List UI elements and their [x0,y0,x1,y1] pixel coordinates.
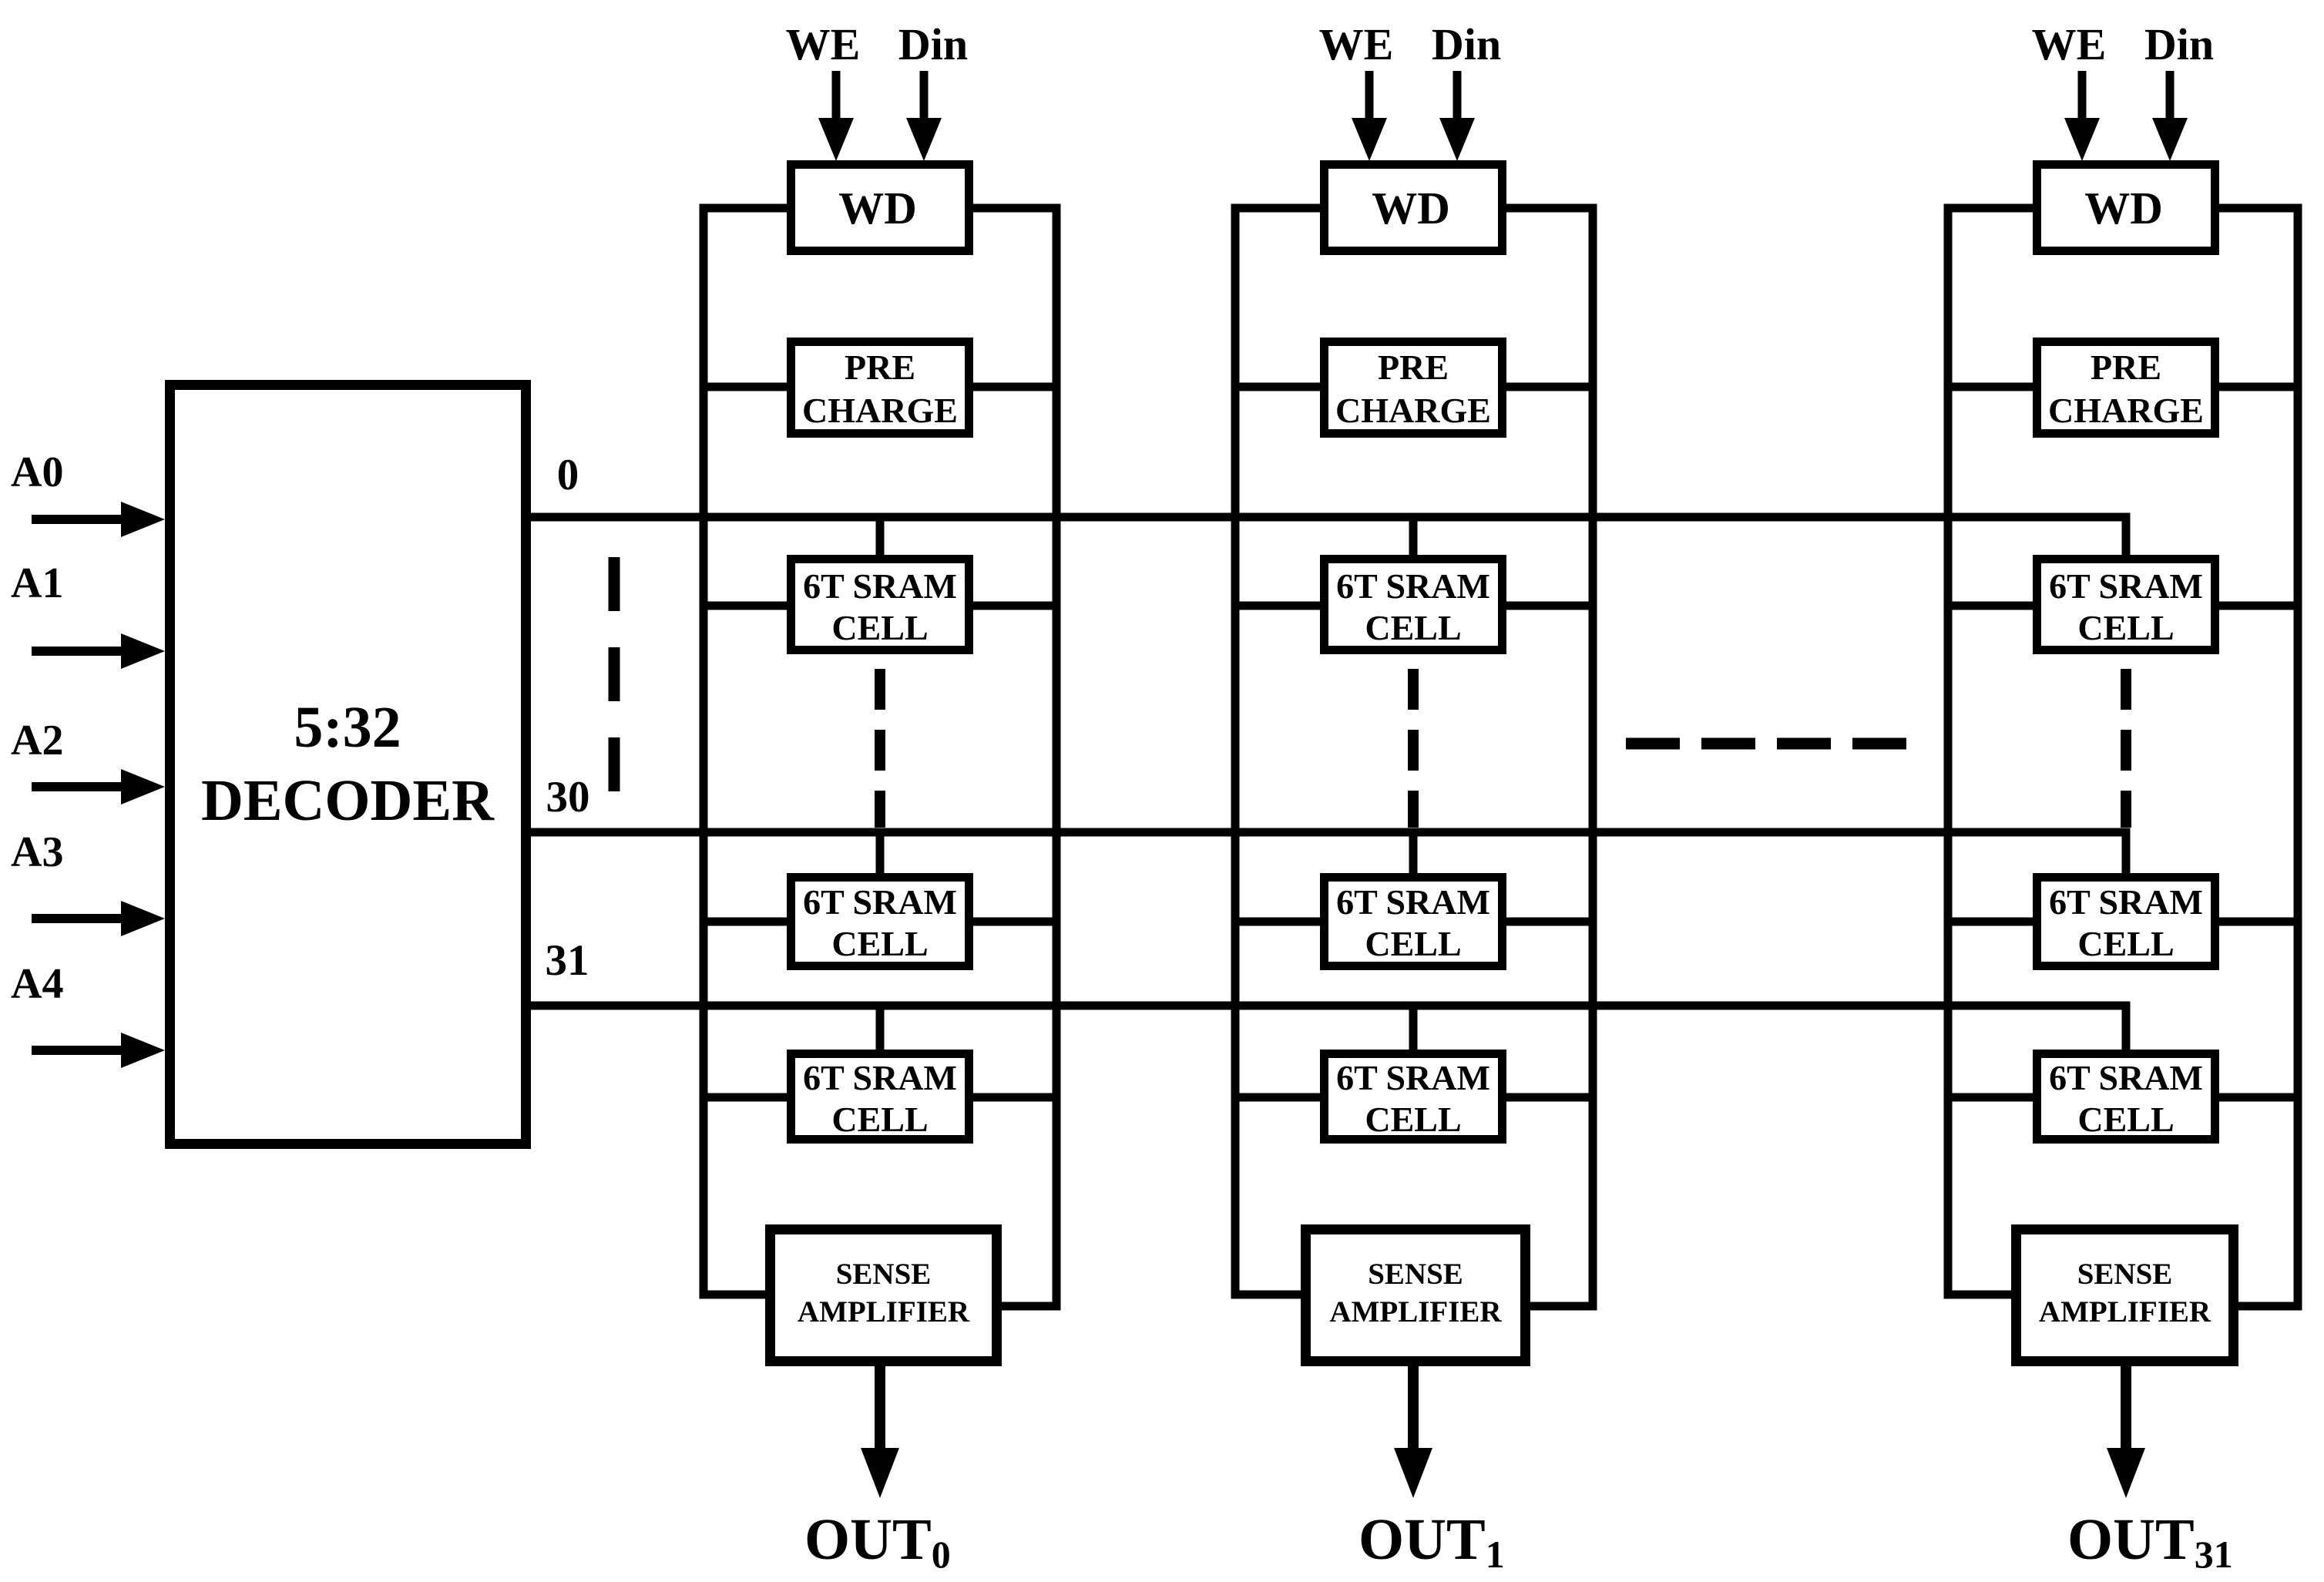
svg-text:A4: A4 [11,960,63,1008]
wire cell link left row 31 (column 1) [1235,1093,1320,1102]
output arrow OUT0 (column 0) [861,1366,899,1498]
svg-text:30: 30 [546,773,590,821]
svg-text:6T SRAM: 6T SRAM [2049,566,2203,606]
wire bit line rail right (column 1) [1506,208,1593,1306]
svg-text:CELL: CELL [2077,608,2174,647]
wire precharge link left (column 0) [704,383,787,391]
input arrow A2 [32,769,165,804]
input arrow A0 [32,502,165,537]
output arrow OUT31 (column 31) [2107,1366,2145,1498]
sense amplifier (column 1) [1306,1230,1526,1362]
svg-text:5:32: 5:32 [294,695,401,760]
6T SRAM cell row 0 (column 1) [1325,559,1503,650]
wire bit line rail right (column 31) [2219,208,2298,1306]
svg-text:6T SRAM: 6T SRAM [1336,1058,1490,1097]
input arrow Din (column 31) [2152,71,2188,161]
wire cell link right row 0 (column 31) [2219,602,2298,610]
wire bit line rail left (column 31) [1948,208,2033,1295]
wire cell link left row 30 (column 0) [704,918,787,926]
wire bit line rail right (column 0) [973,208,1056,1306]
wire cell link left row 0 (column 31) [1948,602,2033,610]
svg-text:WE: WE [2032,19,2107,69]
svg-text:CHARGE: CHARGE [1335,391,1491,430]
dashed cell-ellipsis wire (column 0) [875,669,885,828]
svg-text:SENSE: SENSE [1368,1258,1463,1291]
svg-text:WD: WD [1372,183,1450,233]
svg-text:PRE: PRE [1378,348,1449,387]
wire cell link right row 31 (column 1) [1506,1093,1593,1102]
wire word line 31 stub (column 1) [1409,1006,1418,1050]
6T SRAM cell row 0 (column 0) [791,559,969,650]
write driver WD (column 1) [1325,165,1503,251]
svg-text:WE: WE [786,19,861,69]
wire cell link right row 30 (column 1) [1506,918,1593,926]
wire word line 30 [531,832,2126,873]
wire word line 0 stub (column 0) [876,517,885,555]
dashed cell-ellipsis wire (column 1) [1408,669,1419,828]
precharge block (column 31) [2037,342,2215,434]
svg-text:CELL: CELL [1365,1100,1461,1139]
svg-text:A0: A0 [11,448,63,496]
svg-text:CHARGE: CHARGE [802,391,958,430]
svg-text:OUT1: OUT1 [1358,1507,1505,1576]
decoder U1 5:32 DECODER [170,385,526,1144]
svg-text:CELL: CELL [1365,924,1461,963]
wire word line 30 stub (column 1) [1409,832,1418,873]
wire word line 0 [531,517,2126,555]
wire bit line rail left (column 1) [1235,208,1320,1295]
svg-text:A2: A2 [11,717,63,764]
input arrow WE (column 31) [2064,71,2100,161]
wire cell link left row 0 (column 1) [1235,602,1320,610]
svg-text:SENSE: SENSE [2077,1258,2173,1291]
svg-text:DECODER: DECODER [201,768,495,833]
wire precharge link right (column 31) [2219,383,2298,391]
svg-text:6T SRAM: 6T SRAM [2049,1058,2203,1097]
svg-text:CELL: CELL [2077,924,2174,963]
dashed row-ellipsis wire (decoder outputs) [609,557,620,792]
svg-text:PRE: PRE [845,348,915,387]
wire cell link left row 30 (column 31) [1948,918,2033,926]
svg-text:A3: A3 [11,828,63,876]
input arrow Din (column 0) [906,71,942,161]
wire cell link right row 30 (column 0) [973,918,1056,926]
input arrow A4 [32,1033,165,1068]
svg-text:Din: Din [1432,19,1501,69]
wire word line 0 stub (column 1) [1409,517,1418,555]
svg-text:WD: WD [2084,183,2163,233]
input arrow WE (column 0) [818,71,854,161]
dashed cell-ellipsis wire (column 31) [2121,669,2131,828]
output arrow OUT1 (column 1) [1394,1366,1432,1498]
svg-text:6T SRAM: 6T SRAM [803,566,957,606]
svg-text:Din: Din [898,19,968,69]
wire cell link left row 0 (column 0) [704,602,787,610]
write driver WD (column 31) [2037,165,2215,251]
svg-text:AMPLIFIER: AMPLIFIER [1329,1295,1502,1328]
precharge block (column 1) [1325,342,1503,434]
input arrow Din (column 1) [1439,71,1475,161]
input arrow WE (column 1) [1352,71,1387,161]
svg-text:AMPLIFIER: AMPLIFIER [2039,1295,2211,1328]
wire precharge link left (column 1) [1235,383,1320,391]
svg-text:6T SRAM: 6T SRAM [803,1058,957,1097]
svg-text:CELL: CELL [831,608,928,647]
svg-text:6T SRAM: 6T SRAM [803,882,957,922]
svg-text:6T SRAM: 6T SRAM [1336,566,1490,606]
wire word line 30 stub (column 0) [876,832,885,873]
svg-text:Din: Din [2144,19,2214,69]
input arrow A3 [32,901,165,936]
6T SRAM cell row 31 (column 0) [791,1054,969,1140]
svg-text:SENSE: SENSE [836,1258,932,1291]
sense amplifier (column 31) [2017,1230,2234,1362]
6T SRAM cell row 30 (column 31) [2037,878,2215,966]
wire cell link right row 30 (column 31) [2219,918,2298,926]
6T SRAM cell row 31 (column 31) [2037,1054,2215,1140]
svg-text:OUT0: OUT0 [804,1507,951,1576]
svg-text:CELL: CELL [831,1100,928,1139]
svg-text:CHARGE: CHARGE [2048,391,2204,430]
write driver WD (column 0) [791,165,969,251]
svg-text:AMPLIFIER: AMPLIFIER [798,1295,970,1328]
wire cell link left row 31 (column 0) [704,1093,787,1102]
svg-text:WD: WD [838,183,917,233]
wire precharge link right (column 0) [973,383,1056,391]
svg-text:6T SRAM: 6T SRAM [2049,882,2203,922]
input arrow A1 [32,633,165,669]
svg-text:31: 31 [546,936,589,985]
sense amplifier (column 0) [771,1230,997,1362]
wire cell link left row 31 (column 31) [1948,1093,2033,1102]
wire precharge link right (column 1) [1506,383,1593,391]
svg-text:0: 0 [557,451,579,499]
svg-text:6T SRAM: 6T SRAM [1336,882,1490,922]
wire cell link left row 30 (column 1) [1235,918,1320,926]
svg-text:CELL: CELL [831,924,928,963]
6T SRAM cell row 30 (column 0) [791,878,969,966]
dashed column-ellipsis wire [1626,738,1913,750]
svg-text:PRE: PRE [2091,348,2161,387]
wire cell link right row 31 (column 0) [973,1093,1056,1102]
wire word line 31 [531,1006,2126,1050]
svg-text:CELL: CELL [2077,1100,2174,1139]
svg-text:CELL: CELL [1365,608,1461,647]
6T SRAM cell row 0 (column 31) [2037,559,2215,650]
precharge block (column 0) [791,342,969,434]
6T SRAM cell row 30 (column 1) [1325,878,1503,966]
svg-text:A1: A1 [11,559,63,607]
6T SRAM cell row 31 (column 1) [1325,1054,1503,1140]
svg-text:WE: WE [1319,19,1394,69]
wire word line 31 stub (column 0) [876,1006,885,1050]
wire bit line rail left (column 0) [704,208,787,1295]
wire cell link right row 31 (column 31) [2219,1093,2298,1102]
wire cell link right row 0 (column 0) [973,602,1056,610]
wire precharge link left (column 31) [1948,383,2033,391]
wire cell link right row 0 (column 1) [1506,602,1593,610]
